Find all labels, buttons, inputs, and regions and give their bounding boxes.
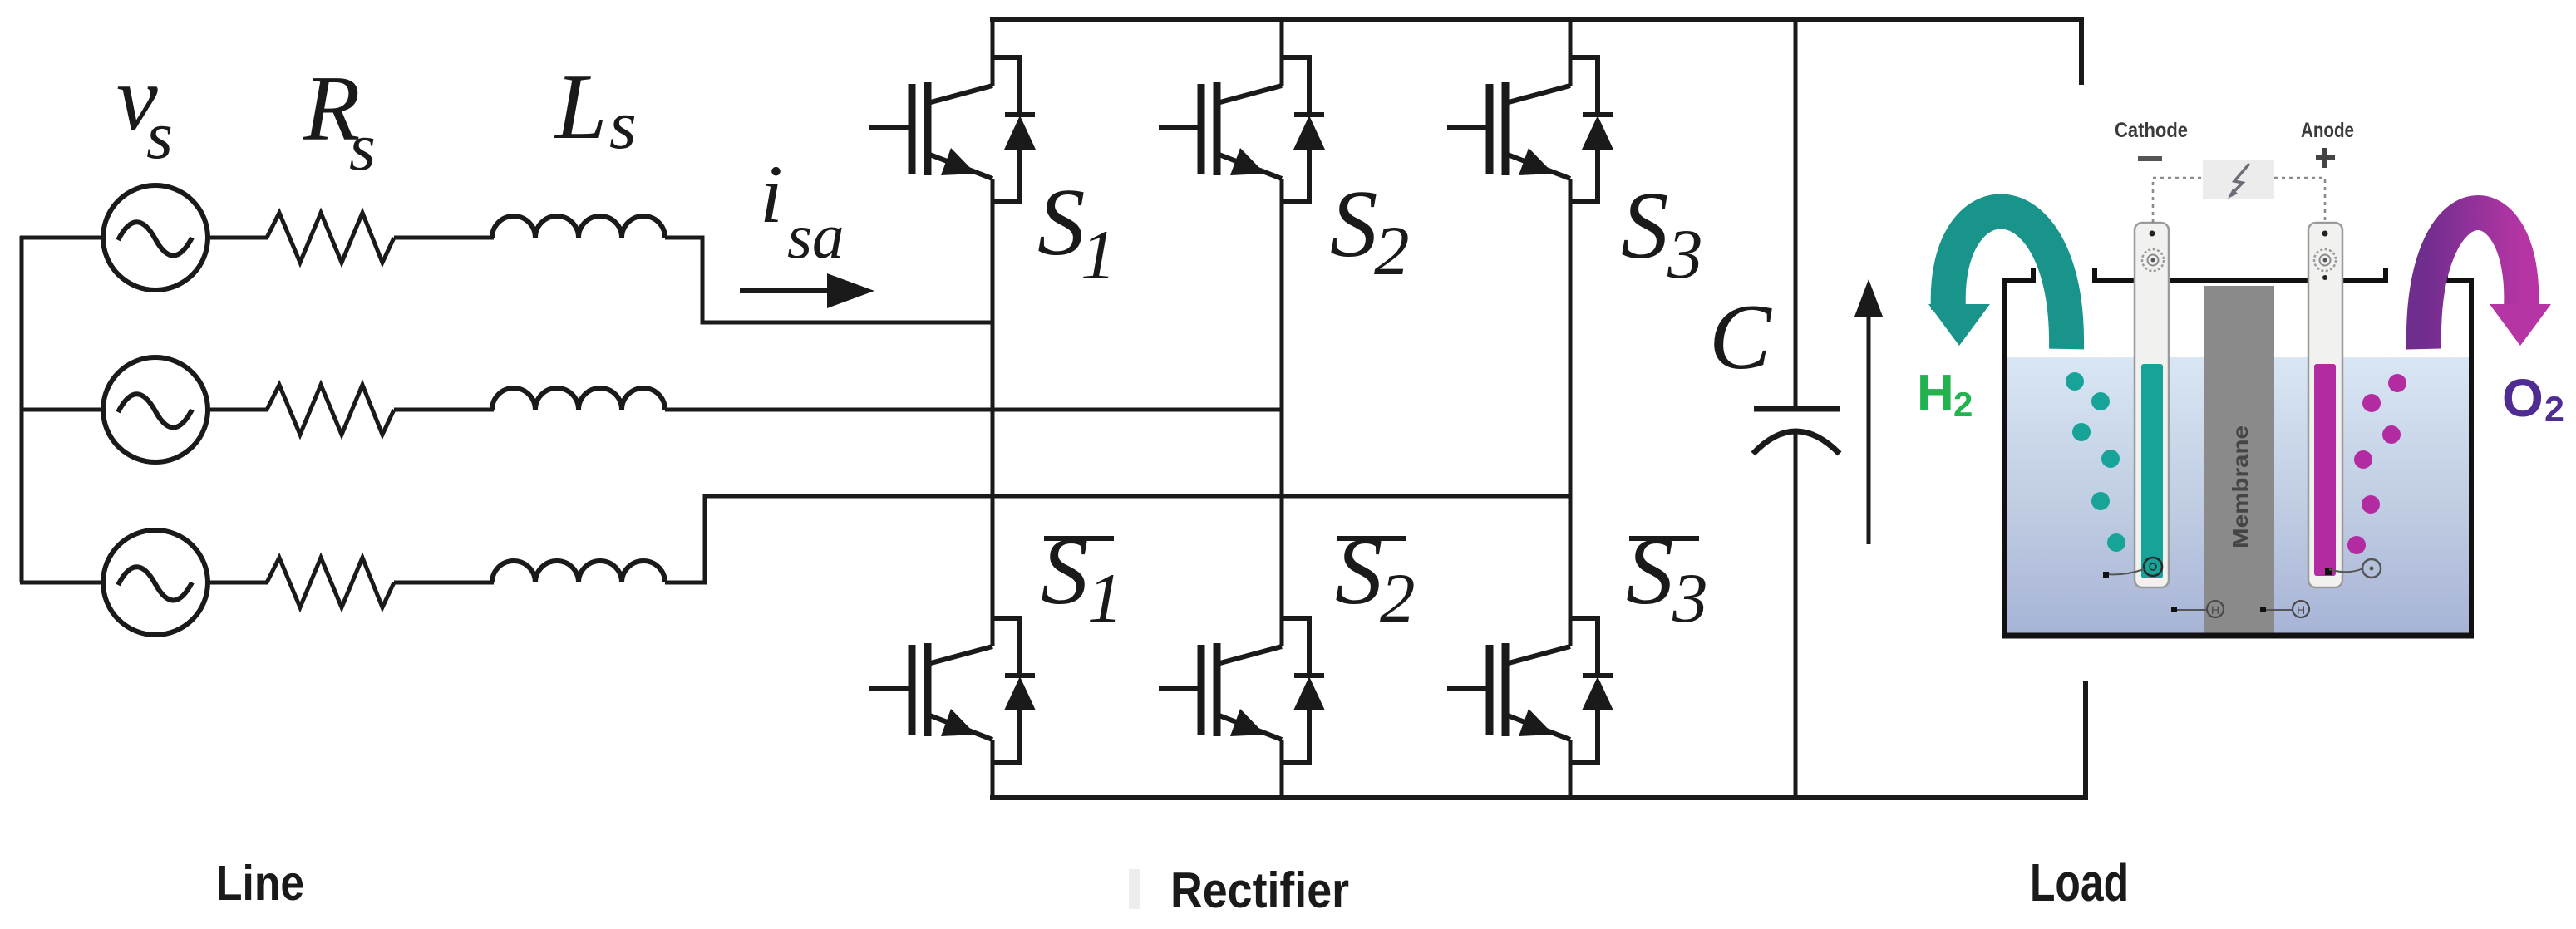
svg-text:Anode: Anode (2301, 119, 2354, 142)
source VSb (103, 357, 208, 462)
artifact pale caret (1129, 869, 1140, 909)
node leg1 (991, 20, 995, 798)
label H2 (1917, 365, 1973, 424)
membrane (2204, 286, 2274, 637)
tank top edge with gas gaps (2002, 268, 2474, 283)
svg-text:H: H (2297, 603, 2305, 617)
wire stub to source b (20, 408, 103, 412)
wire source a to resistor (208, 236, 268, 240)
svg-text:2: 2 (1953, 385, 1973, 424)
svg-text:1: 1 (1081, 216, 1116, 294)
label isa (760, 148, 844, 272)
svg-text:Load: Load (2030, 853, 2129, 912)
wire resistor b to inductor (394, 408, 494, 412)
svg-text:2: 2 (2544, 390, 2564, 430)
bubbles O2 (2347, 374, 2406, 554)
H2 gas arc (1948, 212, 2066, 349)
cathode electrode tube (2103, 223, 2169, 587)
power supply dashed wires (2153, 178, 2325, 223)
svg-text:s: s (349, 109, 376, 184)
inductor LSa (492, 216, 665, 238)
svg-text:H: H (2211, 603, 2219, 617)
anode electrode tube (2308, 223, 2381, 587)
cathode minus sign (2138, 156, 2162, 161)
wire stub to source a (20, 236, 103, 240)
label O2 (2502, 368, 2564, 430)
svg-text:Line: Line (216, 856, 304, 911)
label Ls (554, 56, 637, 164)
wire resistor c to inductor (394, 581, 494, 585)
svg-text:S: S (1626, 519, 1674, 624)
node leg3 (1569, 20, 1573, 798)
liquid (2007, 357, 2469, 637)
source VSa (103, 185, 208, 290)
source VSc (103, 530, 208, 635)
transistor S3 (1447, 57, 1613, 202)
label S2bar (1335, 519, 1416, 637)
svg-text:S: S (1330, 171, 1378, 277)
wire left neutral bus (20, 236, 24, 582)
transistor S3bar (1447, 618, 1613, 763)
label S3bar (1626, 519, 1708, 637)
voltage arrow head (1854, 279, 1883, 317)
hydrogen ion markers (2171, 601, 2309, 617)
svg-text:3: 3 (1672, 559, 1708, 637)
wire resistor a to inductor (394, 236, 494, 240)
power supply box (2203, 160, 2274, 199)
tank walls (2002, 268, 2474, 637)
wire phase c jog (665, 496, 1570, 582)
wire source c to resistor (208, 581, 268, 585)
svg-text:2: 2 (1380, 559, 1416, 637)
svg-text:s: s (609, 86, 637, 164)
label S1bar (1041, 519, 1123, 637)
label vs (116, 47, 173, 173)
svg-text:S: S (1621, 173, 1669, 278)
label S2 (1330, 171, 1410, 290)
H2 arc arrowhead (1928, 304, 1990, 346)
wire phase b (665, 408, 1282, 412)
svg-text:s: s (146, 97, 173, 173)
O2 arc arrowhead (2490, 304, 2551, 346)
capacitor C wire bottom (1794, 431, 1798, 798)
svg-text:Rectifier: Rectifier (1170, 863, 1349, 918)
label Rs (303, 57, 376, 184)
current arrow isa (740, 288, 831, 293)
lightning bolt (2228, 164, 2249, 199)
svg-text:sa: sa (787, 200, 844, 272)
svg-text:S: S (1335, 519, 1383, 624)
svg-text:Membrane: Membrane (2228, 425, 2253, 548)
svg-text:Cathode: Cathode (2115, 119, 2188, 142)
inductor LSb (492, 388, 665, 410)
label S1 (1037, 170, 1116, 294)
capacitor C plates (1754, 406, 1840, 412)
voltage arrow line (1867, 311, 1871, 544)
svg-text:O: O (2502, 368, 2544, 428)
wire dc bus plus (990, 17, 2081, 22)
transistor S1 (869, 57, 1036, 202)
transistor S2bar (1159, 618, 1325, 763)
svg-text:S: S (1037, 170, 1086, 275)
wire phase a jog (665, 238, 992, 322)
transistor S1bar (869, 618, 1036, 763)
anode plus sign (2316, 148, 2335, 168)
svg-text:S: S (1041, 519, 1089, 624)
O2 gas arc (2424, 213, 2521, 349)
svg-text:L: L (554, 56, 607, 159)
bubbles H2 (2066, 372, 2125, 552)
wire load stub plus (2079, 17, 2084, 85)
resistor RSc (267, 558, 394, 607)
svg-text:3: 3 (1667, 215, 1703, 293)
wire load stub minus (2083, 681, 2088, 800)
svg-text:C: C (1709, 286, 1772, 389)
svg-text:1: 1 (1087, 559, 1123, 637)
svg-text:i: i (760, 148, 783, 240)
svg-text:H: H (1917, 365, 1954, 422)
inductor LSc (492, 561, 665, 582)
wire source b to resistor (208, 408, 268, 412)
wire dc bus minus (990, 795, 2086, 800)
transistor S2 (1159, 57, 1325, 202)
label S3 (1621, 173, 1703, 293)
node leg2 (1280, 20, 1284, 798)
svg-text:2: 2 (1374, 212, 1410, 290)
resistor RSa (267, 213, 394, 263)
capacitor C wire top (1794, 20, 1798, 409)
wire stub to source c (20, 581, 103, 585)
resistor RSb (267, 385, 394, 435)
